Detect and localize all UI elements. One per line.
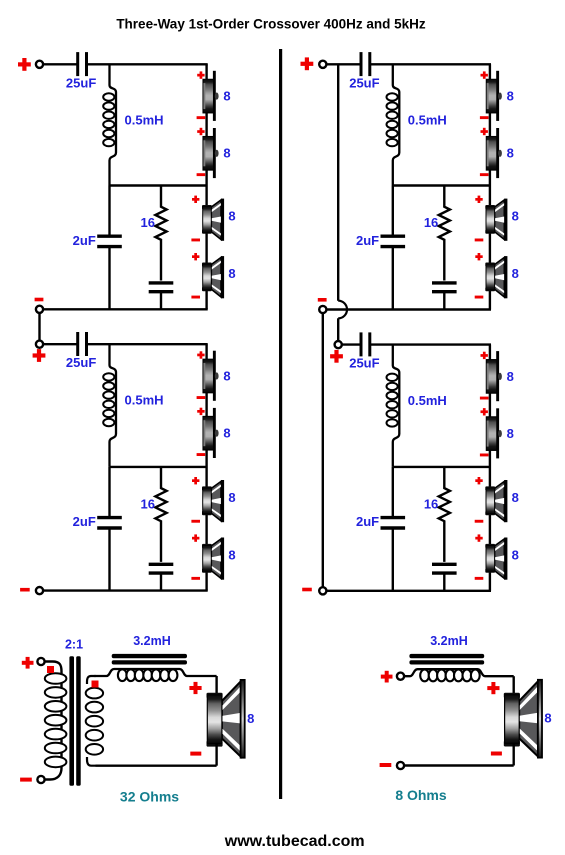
polarity - midrange 1 (right block B) (475, 520, 484, 523)
svg-text:8: 8 (512, 266, 519, 281)
polarity + input (left block B) (33, 349, 46, 362)
polarity + tweeter 1 (left block B) (197, 351, 204, 358)
terminal - (left block A) (36, 306, 43, 313)
polarity - input (woofer section right) (380, 763, 392, 767)
terminal + input (left block A) (36, 61, 43, 68)
terminal + input (right block B) (335, 341, 342, 348)
speaker tweeter 1, 8 ohm (left block B) (203, 351, 219, 401)
wire transformer primary spine (44, 662, 61, 780)
svg-text:8: 8 (223, 146, 230, 161)
svg-text:8: 8 (512, 208, 519, 223)
svg-text:2uF: 2uF (356, 514, 379, 529)
wire secondary bottom corner (87, 757, 96, 766)
polarity - midrange 2 (left block A) (191, 296, 200, 299)
svg-text:16: 16 (424, 497, 438, 512)
wire input to 25uF (right block A) (326, 63, 361, 65)
wire speaker rail (left block A) (205, 64, 207, 309)
polarity + midrange 2 (left block A) (192, 253, 199, 260)
inductor 3.2mH core bars (right) (409, 654, 484, 665)
wire to 2uF (left block A) (108, 186, 110, 236)
polarity - input (woofer section left) (20, 778, 32, 782)
svg-text:0.5mH: 0.5mH (408, 113, 447, 128)
capacitor 2uF (left block B) (97, 518, 122, 528)
polarity - tweeter 2 (left block A) (197, 173, 206, 176)
capacitor (shunt, series w/ 16&#937;) (left block A) (149, 283, 174, 292)
polarity + midrange 2 (left block B) (192, 534, 199, 541)
polarity - midrange 2 (left block B) (191, 577, 200, 580)
wire - bus block A to block B (right column) (322, 313, 324, 591)
speaker tweeter 2, 8 ohm (right block B) (486, 408, 502, 458)
polarity - tweeter 2 (left block B) (197, 453, 206, 456)
polarity - tweeter 1 (left block B) (197, 396, 206, 399)
resistor 16&#937; (right block A) (439, 186, 450, 281)
polarity + input (left block A) (18, 58, 31, 71)
svg-text:8: 8 (247, 711, 254, 726)
capacitor 25uF (right block A) (361, 52, 370, 76)
wire bottom rail (left block B) (43, 589, 208, 591)
capacitor (shunt, series w/ 16&#937;) (right block B) (432, 564, 457, 573)
svg-text:8 Ohms: 8 Ohms (395, 787, 447, 803)
transformer T1 secondary winding (86, 688, 103, 699)
speaker woofer 32 ohm load (left) (207, 680, 245, 758)
capacitor (shunt, series w/ 16&#937;) (left block B) (149, 564, 174, 573)
terminal - (woofer section left) (37, 776, 44, 783)
polarity + midrange 1 (left block B) (192, 477, 199, 484)
polarity - midrange 2 (right block B) (475, 577, 484, 580)
polarity - midrange 1 (left block B) (191, 520, 200, 523)
capacitor 25uF (left block B) (78, 332, 87, 356)
terminal - (right block B) (319, 587, 326, 594)
wire series link block A- to block B+ (38, 313, 40, 341)
speaker tweeter 2, 8 ohm (right block A) (486, 128, 502, 178)
polarity - output (left block A) (35, 298, 44, 302)
wire into woofer - (right) (513, 744, 515, 766)
wire from 2uF (left block A) (108, 248, 110, 309)
polarity + tweeter 2 (left block B) (197, 408, 204, 415)
inductor 3.2mH (left) (95, 669, 217, 676)
terminal - (left block B) (36, 587, 43, 594)
svg-text:25uF: 25uF (66, 75, 96, 90)
wire resistor branch to bottom (right block B) (443, 574, 445, 591)
speaker midrange 2, 8 ohm (right block A) (485, 256, 507, 298)
phase dot primary (47, 666, 54, 673)
transformer T1 core (69, 656, 80, 786)
svg-text:25uF: 25uF (349, 356, 379, 371)
inductor 0.5mH (right block A) (393, 64, 400, 185)
polarity + tweeter 1 (right block A) (481, 71, 488, 78)
polarity + midrange 2 (right block A) (475, 253, 482, 260)
speaker tweeter 1, 8 ohm (right block B) (486, 351, 502, 401)
polarity + input (right block A) (301, 57, 314, 70)
polarity - tweeter 1 (right block A) (480, 116, 489, 119)
svg-text:Three-Way 1st-Order Crossover: Three-Way 1st-Order Crossover 400Hz and … (116, 17, 426, 32)
terminal + (woofer section right) (397, 673, 404, 680)
speaker midrange 2, 8 ohm (right block B) (485, 538, 507, 580)
capacitor 2uF (right block A) (381, 236, 406, 246)
capacitor 25uF (right block B) (361, 332, 370, 356)
terminal - (right block A) (319, 306, 326, 313)
polarity - output (right block A) (318, 298, 327, 302)
polarity + input (woofer section left) (22, 657, 34, 669)
speaker tweeter 1, 8 ohm (left block A) (203, 71, 219, 121)
polarity + tweeter 1 (left block A) (197, 71, 204, 78)
wire resistor branch to bottom (left block A) (160, 293, 162, 310)
polarity - output (right block B) (302, 588, 312, 592)
speaker tweeter 2, 8 ohm (left block B) (203, 408, 219, 458)
polarity - woofer (left) (190, 752, 201, 756)
inductor 3.2mH (right) (404, 669, 514, 676)
speaker midrange 2, 8 ohm (left block B) (202, 538, 224, 580)
capacitor 2uF (right block B) (381, 518, 406, 528)
phase dot secondary (92, 681, 99, 688)
inductor 0.5mH (left block B) (110, 344, 117, 467)
wire from 2uF (right block B) (392, 529, 394, 590)
wire speaker rail (left block B) (205, 344, 207, 590)
wire mid rail (left block B) (110, 466, 207, 468)
polarity + tweeter 2 (right block A) (481, 128, 488, 135)
wire from 2uF (right block A) (392, 248, 394, 310)
wire into woofer + (left) (215, 676, 217, 694)
polarity - output (left block B) (20, 588, 30, 592)
wire bottom rail (left block A) (43, 308, 208, 310)
svg-text:8: 8 (507, 426, 514, 441)
svg-text:16: 16 (141, 215, 155, 230)
wire mid rail (left block A) (110, 184, 207, 186)
polarity + input (right block B) (330, 350, 343, 363)
svg-text:25uF: 25uF (349, 75, 379, 90)
transformer T1 primary winding (2:1) (45, 673, 67, 684)
polarity - woofer (right) (491, 752, 502, 756)
svg-text:www.tubecad.com: www.tubecad.com (224, 833, 365, 850)
wire mid rail (right block B) (393, 466, 490, 468)
inductor 0.5mH (left block A) (110, 64, 117, 185)
svg-text:2uF: 2uF (356, 233, 379, 248)
svg-text:8: 8 (507, 146, 514, 161)
capacitor (shunt, series w/ 16&#937;) (right block A) (432, 283, 457, 292)
speaker midrange 1, 8 ohm (right block B) (485, 480, 507, 522)
polarity + tweeter 2 (right block B) (481, 408, 488, 415)
inductor 3.2mH core bars (left) (112, 654, 187, 665)
wire 25uF to tweeter rail (left block B) (87, 343, 208, 345)
polarity + midrange 1 (right block A) (475, 196, 482, 203)
polarity + tweeter 2 (left block A) (197, 128, 204, 135)
svg-text:0.5mH: 0.5mH (125, 393, 164, 408)
wire + bus to block B input (right column) (337, 318, 339, 341)
terminal - (woofer section right) (397, 762, 404, 769)
polarity + tweeter 1 (right block B) (481, 352, 488, 359)
wire bottom rail (right block B) (326, 590, 491, 592)
polarity - midrange 1 (right block A) (475, 239, 484, 242)
polarity + woofer (right) (487, 682, 499, 694)
wire bottom rail woofer (right) (404, 764, 514, 766)
terminal + input (left block B) (36, 341, 43, 348)
speaker midrange 1, 8 ohm (left block B) (202, 480, 224, 522)
capacitor 2uF (left block A) (97, 236, 122, 246)
wire hop: + bus over - rail (right column) (338, 301, 347, 319)
svg-text:8: 8 (223, 89, 230, 104)
wire 25uF to tweeter rail (left block A) (87, 63, 208, 65)
wire input to 25uF (left block A) (43, 63, 78, 65)
wire input to 25uF (left block B) (43, 343, 78, 345)
svg-text:8: 8 (228, 208, 235, 223)
wire bottom rail (right block A) (326, 308, 491, 310)
svg-text:2uF: 2uF (73, 514, 96, 529)
polarity + midrange 1 (right block B) (475, 477, 482, 484)
wire into woofer - (left) (215, 744, 217, 766)
svg-text:8: 8 (228, 548, 235, 563)
speaker midrange 2, 8 ohm (left block A) (202, 256, 224, 298)
wire resistor branch to bottom (right block A) (443, 293, 445, 310)
polarity + midrange 2 (right block B) (475, 534, 482, 541)
wire to 2uF (right block A) (392, 186, 394, 236)
svg-text:16: 16 (424, 215, 438, 230)
wire resistor branch to bottom (left block B) (160, 574, 162, 591)
polarity - tweeter 1 (left block A) (197, 116, 206, 119)
svg-text:2:1: 2:1 (65, 638, 83, 652)
svg-text:8: 8 (507, 369, 514, 384)
polarity - midrange 2 (right block A) (475, 296, 484, 299)
svg-text:8: 8 (223, 368, 230, 383)
svg-text:8: 8 (507, 89, 514, 104)
svg-text:32 Ohms: 32 Ohms (120, 788, 179, 804)
wire 25uF to tweeter rail (right block B) (370, 343, 491, 345)
wire to 2uF (left block B) (108, 467, 110, 517)
speaker tweeter 2, 8 ohm (left block A) (203, 128, 219, 178)
wire into woofer + (right) (513, 676, 515, 694)
svg-text:8: 8 (512, 548, 519, 563)
wire from 2uF (left block B) (108, 529, 110, 590)
wire mid rail (right block A) (393, 184, 490, 186)
polarity + midrange 1 (left block A) (192, 196, 199, 203)
wire to 2uF (right block B) (392, 467, 394, 517)
speaker woofer 8 ohm (right) (504, 680, 542, 758)
speaker tweeter 1, 8 ohm (right block A) (486, 71, 502, 121)
svg-text:8: 8 (228, 266, 235, 281)
polarity + input (woofer section right) (381, 671, 393, 683)
polarity - tweeter 1 (right block B) (480, 397, 489, 400)
wire bottom rail woofer (left) (96, 765, 217, 767)
wire 25uF to tweeter rail (right block A) (370, 63, 491, 65)
svg-text:8: 8 (512, 490, 519, 505)
resistor 16&#937; (left block B) (155, 467, 166, 562)
terminal + (woofer section left) (37, 658, 44, 665)
wire + bus drop (right column) (337, 64, 339, 300)
wire speaker rail (right block B) (489, 345, 491, 591)
speaker midrange 1, 8 ohm (left block A) (202, 199, 224, 241)
svg-text:16: 16 (141, 497, 155, 512)
svg-text:0.5mH: 0.5mH (408, 393, 447, 408)
terminal + input (right block A) (319, 61, 326, 68)
svg-text:8: 8 (544, 710, 551, 725)
svg-text:25uF: 25uF (66, 355, 96, 370)
svg-text:0.5mH: 0.5mH (125, 113, 164, 128)
polarity - tweeter 2 (right block A) (480, 173, 489, 176)
wire secondary top corner (87, 676, 96, 684)
svg-text:8: 8 (223, 426, 230, 441)
polarity - midrange 1 (left block A) (191, 239, 200, 242)
resistor 16&#937; (right block B) (439, 467, 450, 562)
polarity + woofer (left) (189, 682, 201, 694)
svg-text:3.2mH: 3.2mH (430, 634, 468, 648)
wire speaker rail (right block A) (489, 64, 491, 309)
wire input to 25uF (right block B) (342, 343, 361, 345)
speaker midrange 1, 8 ohm (right block A) (485, 199, 507, 241)
svg-text:8: 8 (228, 490, 235, 505)
divider line between series (32 ohm) and parallel (8 ohm) versions (279, 49, 282, 799)
resistor 16&#937; (left block A) (155, 186, 166, 281)
svg-text:2uF: 2uF (73, 233, 96, 248)
polarity - tweeter 2 (right block B) (480, 454, 489, 457)
capacitor 25uF (left block A) (78, 52, 87, 76)
inductor 0.5mH (right block B) (393, 345, 400, 467)
svg-text:3.2mH: 3.2mH (133, 634, 171, 648)
